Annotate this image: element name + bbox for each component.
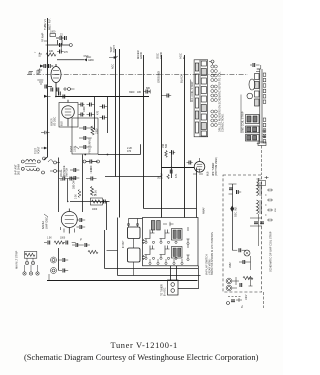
svg-text:AGC: AGC — [86, 56, 91, 59]
svg-text:B+ AGC: B+ AGC — [163, 287, 166, 296]
svg-text:470: 470 — [97, 110, 100, 115]
svg-text:10K: 10K — [49, 50, 54, 53]
svg-text:B+: B+ — [182, 55, 186, 59]
svg-text:3900: 3900 — [129, 91, 135, 94]
svg-text:OSC. INJ.: OSC. INJ. — [236, 206, 238, 217]
svg-text:GROUND: GROUND — [156, 71, 160, 83]
svg-text:UHF OSC: UHF OSC — [44, 217, 48, 229]
svg-text:SCHEMATIC OF UHF COIL STRIP: SCHEMATIC OF UHF COIL STRIP — [269, 231, 273, 272]
svg-text:6U8: 6U8 — [61, 121, 64, 126]
svg-text:BLACK: BLACK — [179, 74, 183, 83]
svg-text:SWITCH: SWITCH — [67, 168, 69, 177]
svg-text:270: 270 — [64, 52, 69, 54]
svg-text:LOCAL: LOCAL — [60, 169, 63, 177]
svg-text:AGC: AGC — [179, 53, 183, 59]
svg-text:1000: 1000 — [50, 31, 56, 34]
svg-text:2.2K: 2.2K — [92, 195, 97, 197]
svg-text:IF: IF — [80, 240, 83, 242]
svg-text:VHF ANT: VHF ANT — [15, 164, 18, 175]
svg-text:AWAY: AWAY — [203, 207, 206, 214]
svg-text:300 OHM: 300 OHM — [18, 164, 21, 175]
svg-text:TO TUNER: TO TUNER — [162, 284, 164, 296]
svg-text:10.5K: 10.5K — [74, 145, 77, 152]
svg-text:IF OUT: IF OUT — [123, 240, 125, 248]
svg-text:1.5K: 1.5K — [47, 238, 52, 240]
svg-text:3.3K: 3.3K — [76, 194, 78, 199]
svg-text:AGC: AGC — [112, 64, 115, 69]
svg-text:150: 150 — [275, 208, 277, 212]
svg-text:6BZ7 R.F.: 6BZ7 R.F. — [48, 18, 52, 30]
svg-text:300 OHM: 300 OHM — [73, 179, 76, 189]
svg-text:1000: 1000 — [83, 106, 86, 112]
svg-text:MA IN LT STRIP: MA IN LT STRIP — [16, 250, 19, 269]
svg-text:RF AMP: RF AMP — [42, 32, 45, 42]
svg-text:GRID: GRID — [159, 52, 163, 59]
svg-text:22: 22 — [60, 34, 63, 37]
svg-text:SWITCH IS SHOWN IN UHF POSITIO: SWITCH IS SHOWN IN UHF POSITION — [211, 232, 214, 275]
svg-text:470: 470 — [127, 150, 132, 153]
svg-text:V2 OSC: V2 OSC — [54, 117, 57, 126]
svg-text:B+: B+ — [241, 304, 244, 308]
svg-text:TUBE V1: TUBE V1 — [43, 19, 47, 30]
svg-text:680: 680 — [146, 87, 151, 90]
svg-text:UHF TUNER: UHF TUNER — [213, 162, 215, 176]
svg-text:6U8: 6U8 — [207, 171, 210, 176]
svg-text:CONNECTIONS.: CONNECTIONS. — [221, 113, 224, 132]
svg-text:FINE TUNING: FINE TUNING — [89, 138, 92, 153]
svg-text:GRID: GRID — [88, 60, 94, 62]
svg-text:TEST: TEST — [70, 145, 73, 152]
svg-text:POINT: POINT — [38, 146, 41, 154]
svg-text:140V: 140V — [246, 294, 248, 300]
svg-text:500: 500 — [165, 143, 168, 148]
svg-text:1000: 1000 — [92, 209, 98, 211]
svg-text:1N82: 1N82 — [230, 262, 232, 268]
svg-text:1000: 1000 — [60, 238, 66, 240]
svg-text:GRID: GRID — [139, 52, 143, 59]
svg-text:DISTANCE: DISTANCE — [63, 165, 66, 177]
svg-text:( BOTTOM VIEW ): ( BOTTOM VIEW ) — [216, 157, 218, 176]
svg-text:MIXER: MIXER — [50, 118, 53, 126]
svg-text:47K: 47K — [175, 173, 178, 178]
svg-text:7: 7 — [35, 51, 37, 53]
svg-text:1000: 1000 — [90, 166, 93, 172]
svg-text:OHM: OHM — [161, 173, 164, 179]
svg-text:180: 180 — [137, 91, 142, 94]
svg-text:OSC: OSC — [156, 53, 160, 59]
